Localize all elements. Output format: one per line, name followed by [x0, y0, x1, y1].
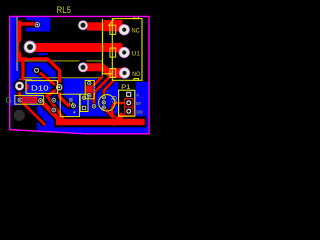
- red frame around P1 pad 3: [124, 107, 133, 116]
- D10 label blue background: [29, 82, 51, 91]
- pad C: [78, 62, 88, 72]
- wire: bottom horizontal wide band: [56, 119, 145, 125]
- svg-text:NC: NC: [132, 27, 140, 34]
- wire: D10 left pad to R10 left pad: [18, 86, 21, 98]
- silkscreen P1 box: [119, 90, 135, 116]
- pad B clearance: [76, 18, 91, 33]
- clearance under P1 riser: [112, 115, 123, 126]
- silkscreen relay top notch: [134, 17, 139, 19]
- pad U1: [119, 47, 130, 58]
- clearance black under left vertical trace: [16, 18, 26, 63]
- pad P1-2: [125, 99, 132, 106]
- silkscreen relay main box: [112, 19, 142, 81]
- wire: diagonal D2 from D10 right pad: [47, 88, 64, 119]
- pad R10 right: [37, 97, 44, 104]
- clearance under diagonal C to Q5: [104, 81, 114, 97]
- pad A (small pad in top blue band): [34, 22, 40, 28]
- black area under P1 label: [119, 82, 136, 90]
- wire: diagonal B: [94, 77, 110, 104]
- pad Q5 top: [101, 94, 107, 100]
- wire: diagonal A toward R16: [89, 77, 102, 93]
- pad NC: [119, 24, 130, 35]
- clearance under diagonal B: [94, 77, 110, 104]
- pad relay coil left (big pad on wide bar) clearance: [19, 36, 41, 58]
- pad Q5 bottom: [101, 105, 107, 111]
- resistor R10 body: [22, 97, 38, 104]
- clearance under P1 pad2 left S-curve trace: [112, 103, 124, 118]
- wire: lower thin trace to D10 right pad and comp M pad: [20, 50, 74, 106]
- wire: via to D10 right pad diagonal: [37, 70, 57, 86]
- silkscreen R16 box: [85, 81, 94, 99]
- pad R16 bottom: [86, 92, 92, 98]
- mounting hole keepout black region: [10, 106, 37, 132]
- silkscreen Q5 circle: [99, 95, 115, 111]
- clearance under top curve of trace to pad A: [20, 24, 35, 60]
- dim silkscreen body outline of relay (olive box): [24, 61, 103, 78]
- pad NC clearance: [117, 23, 131, 37]
- clearance under bottom horizontal band: [54, 116, 147, 127]
- wire: riser from band to P1: [113, 114, 124, 125]
- wire: top bar B to NC: [87, 22, 121, 30]
- via V1: [33, 66, 41, 74]
- pad P1-1 (square ring): [125, 91, 132, 98]
- wire: red wedge into NO: [116, 68, 123, 78]
- pad R16 top: [86, 80, 92, 86]
- wire: wide middle bar to U1: [29, 43, 122, 52]
- svg-text:U1: U1: [132, 50, 140, 57]
- silkscreen vertical line x=101.5: [103, 19, 113, 74]
- silkscreen relay bottom notch: [134, 79, 139, 81]
- ground pour top band: [11, 17, 51, 31]
- pad comp N top: [81, 95, 87, 101]
- clearance under diagonal T2: [41, 101, 63, 123]
- pad P1-3: [125, 108, 132, 115]
- wire: trace down into D10 left pad: [20, 59, 24, 86]
- svg-text:BY: BY: [136, 101, 141, 106]
- pad comp M center: [70, 102, 77, 109]
- wire: diagonal T2 from R10 right pad to bottom band: [41, 101, 63, 123]
- red frame around P1 pad 2: [124, 98, 133, 107]
- pad R10 left: [16, 96, 23, 103]
- wire: T1 from R10 left pad to bottom band: [21, 101, 46, 126]
- ground pour (bottom layer blue) left strip: [11, 17, 17, 54]
- silkscreen relay corner diagonal: [108, 19, 114, 26]
- resistor R16 red body: [86, 85, 93, 93]
- clearance under diagonal D2 from D10 right pad: [47, 88, 64, 119]
- svg-text:D10: D10: [31, 83, 49, 92]
- silkscreen D10 box: [26, 81, 58, 94]
- pad D10 left: [13, 80, 26, 93]
- wire: widening of top bar near NC pad: [104, 20, 121, 31]
- pad NO: [119, 67, 130, 78]
- svg-text:P1: P1: [121, 84, 130, 91]
- clearance under diagonal A to R16: [89, 77, 102, 93]
- clearance under trace into D10 left pad: [20, 59, 24, 86]
- clearance under trace T1 from R10 left pad: [21, 101, 46, 126]
- svg-text:R10: R10: [23, 98, 35, 104]
- pad D10 right: [54, 83, 64, 93]
- wire: left vertical trace (top layer red): [18, 21, 21, 63]
- wire: red wedge into NC: [116, 20, 123, 31]
- clearance under Q5 bottom trace: [104, 108, 114, 118]
- silkscreen small comp box below R16: [80, 94, 88, 111]
- pad comp M left top: [50, 97, 57, 104]
- wire: diagonal C to Q5 top pad: [104, 81, 114, 97]
- svg-text:G: G: [6, 96, 12, 105]
- clearance under R16 body: [84, 82, 94, 98]
- black interior of P1 connector: [120, 91, 135, 116]
- silkscreen bracket pad NC: [110, 25, 116, 34]
- inner-layer gray vertical line: [16, 17, 18, 71]
- mounting hole: [14, 110, 25, 121]
- pad comp M left bottom: [50, 107, 57, 114]
- wire: Q5 bottom pad to band: [104, 108, 114, 118]
- svg-text:RL5: RL5: [57, 5, 72, 15]
- pad B (via pad, top row): [78, 20, 88, 30]
- wire: red stub inside D10 box: [27, 84, 30, 90]
- silkscreen bracket pad U1: [110, 48, 116, 57]
- pad Q5 middle: [101, 99, 107, 105]
- svg-text:W2: W2: [67, 98, 73, 106]
- pad X (fed by diagonal B): [91, 103, 97, 109]
- wire: bar from pad C stepping down to NO pad: [86, 63, 122, 78]
- clearance under D10-left-pad to R10 trace: [16, 86, 23, 98]
- svg-text:NO: NO: [132, 71, 140, 78]
- clearance under via-to-D10 diagonal: [37, 70, 57, 86]
- ground pour main lower region: [11, 53, 149, 133]
- comp M dot: [73, 111, 75, 113]
- pad C clearance: [76, 60, 91, 75]
- silkscreen bracket pad NO: [110, 68, 116, 77]
- wire: top curve to pad A: [20, 24, 35, 58]
- pad NO clearance: [118, 66, 132, 80]
- svg-text:GND: GND: [136, 110, 143, 115]
- pad U1 clearance: [117, 46, 131, 60]
- svg-text:Q5: Q5: [111, 96, 117, 104]
- silkscreen R10 box: [15, 96, 44, 105]
- wire: P1 pad2 to band S-curve: [112, 103, 124, 118]
- pad coil-left (on wide bar): [24, 41, 36, 53]
- pad comp N bottom (square pin-1): [81, 105, 87, 111]
- board outline (keepout magenta): [10, 16, 149, 133]
- wire: red wedge into U1: [116, 44, 123, 53]
- silkscreen comp M box: [60, 94, 79, 116]
- svg-text:A: A: [136, 93, 139, 98]
- clearance under lower thin trace: [20, 50, 74, 106]
- svg-text:R16: R16: [90, 86, 96, 94]
- gray stub near D10 left pad: [19, 79, 32, 80]
